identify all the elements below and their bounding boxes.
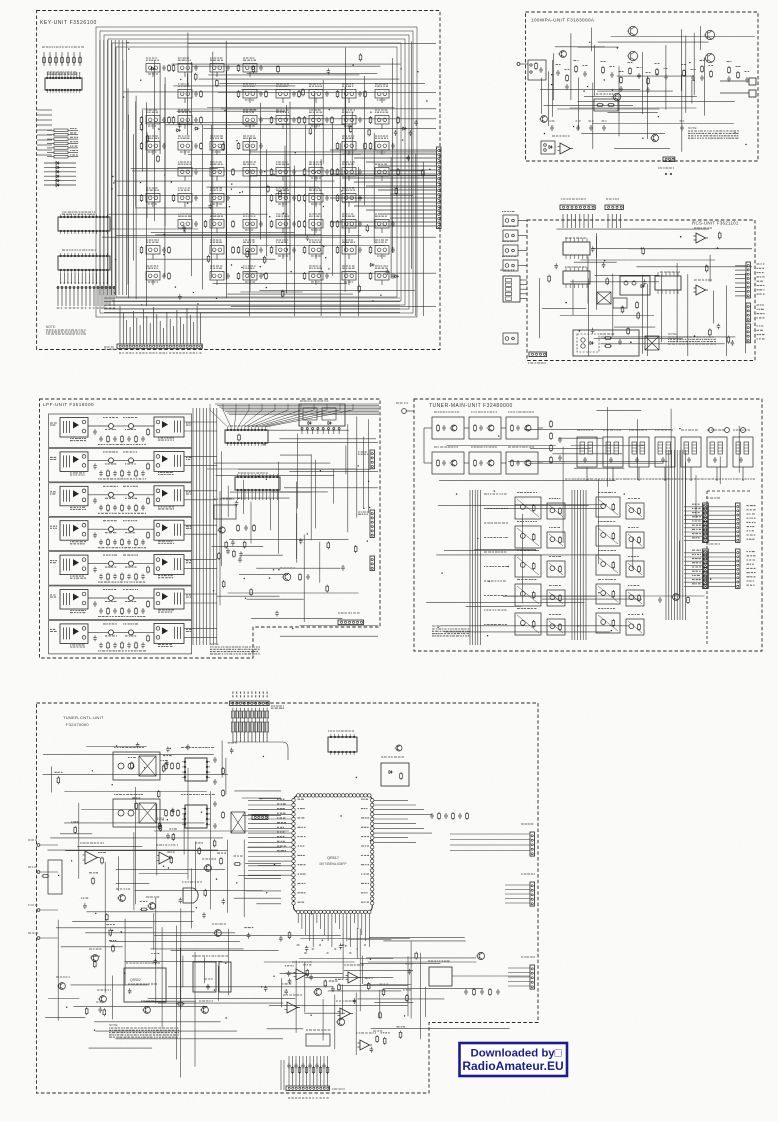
label	[434, 411, 459, 413]
label	[276, 162, 289, 164]
wire	[214, 462, 331, 464]
wire	[720, 92, 749, 94]
label	[682, 64, 686, 66]
wire	[153, 307, 155, 344]
label	[655, 429, 673, 431]
wire	[708, 581, 735, 583]
wire fan	[262, 404, 340, 427]
capacitor	[93, 635, 97, 641]
junction	[653, 139, 654, 140]
label	[747, 551, 755, 553]
wire	[240, 493, 242, 500]
label	[484, 624, 507, 626]
pad	[328, 428, 330, 430]
label	[375, 266, 388, 268]
resistor	[195, 73, 197, 75]
label	[196, 352, 197, 354]
transistor	[451, 460, 457, 466]
wire	[278, 462, 280, 554]
wire	[636, 266, 752, 268]
wire	[356, 417, 358, 518]
label	[757, 289, 765, 291]
wire	[501, 427, 506, 429]
wire	[142, 309, 144, 344]
label	[606, 198, 619, 200]
wire	[373, 133, 375, 244]
wire	[247, 598, 304, 600]
label	[158, 610, 174, 612]
wire	[684, 552, 703, 554]
wire	[219, 406, 379, 408]
pin	[578, 267, 580, 271]
label	[186, 561, 192, 563]
label	[342, 188, 355, 190]
capacitor	[554, 263, 558, 269]
wire	[147, 258, 276, 260]
wire	[68, 156, 78, 158]
label	[70, 576, 86, 578]
resistor	[135, 573, 137, 575]
module KA3	[515, 555, 541, 577]
wire	[216, 176, 218, 181]
label	[97, 307, 99, 309]
pin	[573, 284, 575, 288]
resistor	[141, 142, 143, 144]
label	[186, 526, 192, 528]
key cell Q623	[243, 116, 257, 125]
label	[243, 110, 256, 112]
label	[114, 794, 143, 796]
key cell Q601	[146, 64, 160, 73]
wire	[344, 87, 346, 292]
wire	[188, 42, 436, 44]
resistor	[200, 116, 202, 118]
label	[706, 497, 720, 499]
wire bus	[582, 490, 584, 640]
key cell Q627	[243, 246, 257, 255]
resistor RN5	[247, 711, 250, 718]
junction	[107, 282, 108, 283]
junction	[67, 282, 68, 283]
wire	[708, 518, 735, 520]
capacitor	[127, 608, 131, 614]
pin	[582, 238, 584, 242]
label	[757, 280, 763, 282]
label	[747, 513, 755, 515]
wire	[47, 156, 54, 158]
label	[125, 601, 136, 603]
label	[311, 229, 321, 231]
resistor RN7	[254, 711, 257, 718]
capacitor	[516, 460, 520, 466]
junction	[429, 169, 430, 170]
wire	[381, 98, 383, 103]
resistor	[331, 116, 333, 118]
wire	[374, 837, 408, 839]
wire	[301, 430, 303, 435]
wire	[70, 273, 72, 283]
module KB3	[547, 561, 565, 577]
label	[193, 352, 195, 354]
wire	[216, 254, 218, 259]
wire	[221, 194, 323, 196]
label	[163, 352, 165, 354]
wire	[314, 460, 316, 529]
key cell Q640	[309, 246, 323, 255]
wire	[249, 138, 251, 316]
junction	[140, 80, 141, 81]
capacitor	[292, 221, 296, 227]
label	[757, 276, 765, 278]
resistor	[604, 337, 606, 339]
resistor	[205, 220, 207, 222]
label	[628, 527, 638, 529]
junction	[358, 465, 359, 466]
pad	[73, 287, 75, 289]
diode	[176, 129, 181, 132]
label	[276, 84, 289, 86]
resistor	[612, 532, 614, 534]
wire	[351, 112, 353, 171]
capacitor	[325, 117, 329, 123]
label	[692, 583, 701, 585]
wire	[308, 914, 310, 941]
label	[692, 507, 701, 509]
junction	[89, 282, 90, 283]
junction	[239, 192, 240, 193]
capacitor	[327, 68, 331, 74]
wire	[78, 273, 80, 283]
wire	[154, 60, 156, 221]
wire	[524, 429, 671, 431]
junction	[78, 282, 79, 283]
relay K31	[60, 486, 88, 506]
wire	[315, 254, 317, 259]
junction	[64, 282, 65, 283]
resistor	[728, 66, 730, 68]
capacitor	[194, 221, 198, 227]
junction	[263, 274, 264, 275]
junction	[589, 42, 590, 43]
wire	[330, 197, 436, 199]
wire	[735, 295, 746, 297]
wire	[566, 214, 568, 228]
label	[105, 463, 116, 465]
wire fan	[248, 404, 288, 427]
connector CN3	[663, 157, 675, 162]
label	[125, 463, 136, 465]
transistor	[488, 460, 494, 466]
label	[277, 808, 285, 810]
key cell Q616	[210, 168, 224, 177]
resistor	[350, 125, 352, 127]
capacitor	[700, 75, 704, 81]
IC QR517 pins bottom	[297, 910, 300, 913]
wire	[685, 36, 687, 113]
resistor	[559, 565, 561, 567]
label	[298, 882, 306, 884]
wire	[187, 33, 189, 87]
capacitor	[127, 539, 131, 545]
capacitor	[99, 539, 103, 545]
wire bus	[126, 40, 128, 295]
pin	[569, 284, 571, 288]
resistor	[474, 424, 476, 426]
wire	[708, 539, 735, 541]
wire	[248, 870, 292, 872]
capacitor	[162, 247, 166, 253]
wire	[719, 457, 721, 485]
capacitor	[430, 813, 434, 819]
pin	[703, 513, 707, 517]
label	[278, 255, 288, 257]
label	[50, 423, 57, 425]
wire	[114, 631, 129, 633]
resistor	[238, 246, 240, 248]
wire	[587, 214, 589, 228]
label	[747, 530, 754, 532]
wire	[505, 889, 530, 891]
wire bus	[472, 490, 474, 645]
wire	[227, 293, 353, 295]
wire	[306, 430, 308, 435]
resistor	[147, 634, 149, 636]
label	[73, 307, 76, 309]
label	[186, 352, 188, 354]
label	[628, 614, 640, 616]
wire	[73, 72, 75, 75]
wire	[586, 467, 588, 480]
wire	[61, 52, 63, 66]
key cell Q655	[375, 246, 389, 255]
wire	[322, 430, 324, 435]
wire	[708, 531, 735, 533]
label	[757, 272, 764, 274]
resistor	[360, 53, 362, 55]
junction	[441, 572, 442, 573]
relay K42	[154, 520, 184, 540]
junction	[236, 140, 237, 141]
label	[125, 429, 136, 431]
resistor	[107, 469, 109, 471]
wire	[64, 72, 66, 75]
label	[178, 110, 191, 112]
wire	[186, 74, 188, 136]
wire	[152, 150, 154, 155]
junction	[224, 110, 225, 111]
label	[101, 307, 103, 309]
junction	[694, 80, 695, 81]
module tuner T6	[707, 437, 727, 467]
wire	[85, 286, 87, 306]
junction	[183, 230, 184, 231]
label	[342, 84, 354, 86]
junction	[164, 234, 165, 235]
wire	[390, 169, 436, 171]
input jack	[517, 63, 520, 66]
junction	[231, 189, 232, 190]
wire bus	[682, 450, 684, 620]
resistor	[683, 69, 685, 71]
junction	[630, 341, 632, 343]
capacitor	[259, 143, 263, 149]
label	[105, 429, 116, 431]
pin	[565, 267, 567, 271]
wire	[55, 52, 57, 66]
connector CN302	[370, 510, 375, 537]
diode	[640, 284, 645, 287]
label	[747, 567, 756, 569]
label	[148, 151, 156, 153]
connector CN502	[252, 815, 268, 820]
label	[502, 241, 516, 243]
label	[757, 317, 765, 319]
junction	[128, 48, 129, 49]
wire	[684, 514, 703, 516]
label	[349, 952, 351, 954]
wire	[664, 467, 666, 480]
label	[98, 478, 146, 480]
wire bus	[571, 490, 573, 640]
label	[277, 826, 284, 828]
capacitor	[93, 601, 97, 607]
label	[98, 650, 146, 652]
junction	[508, 566, 509, 567]
wire	[247, 73, 378, 75]
wire	[74, 273, 76, 283]
junction	[140, 182, 141, 183]
wire	[601, 343, 725, 345]
wire bus	[99, 40, 101, 295]
label	[232, 734, 234, 741]
resistor	[238, 64, 240, 66]
label	[576, 120, 581, 122]
resistor R62	[54, 138, 68, 141]
label	[210, 240, 222, 242]
resistor	[309, 127, 311, 129]
wire	[518, 235, 527, 237]
wire	[248, 865, 292, 867]
label	[158, 507, 174, 509]
wire	[63, 273, 65, 283]
label	[600, 333, 614, 335]
wire bus	[104, 304, 400, 306]
wire bus	[110, 40, 112, 295]
wire	[424, 462, 432, 464]
wire	[735, 282, 746, 284]
label	[146, 188, 159, 190]
wire fan	[259, 404, 328, 427]
junction	[489, 581, 490, 582]
jack J5	[503, 333, 518, 344]
connector	[530, 832, 535, 856]
wire	[250, 175, 436, 177]
wire	[37, 154, 52, 156]
resistor	[238, 142, 240, 144]
label	[377, 151, 385, 153]
resistor	[237, 524, 239, 526]
junction	[690, 479, 691, 480]
resistor	[298, 90, 300, 92]
wire	[390, 193, 436, 195]
wire	[229, 538, 348, 540]
wire	[611, 214, 613, 228]
wire	[505, 884, 530, 886]
pin	[565, 284, 567, 288]
capacitor	[259, 91, 263, 97]
capacitor	[358, 117, 362, 123]
label	[550, 120, 555, 122]
IC QR520	[328, 737, 357, 752]
wire	[184, 568, 217, 570]
label	[77, 307, 79, 309]
label	[736, 66, 741, 68]
svg-text:QR502: QR502	[130, 978, 141, 982]
wire	[381, 124, 383, 129]
pin	[506, 297, 512, 300]
wire	[146, 316, 148, 344]
wire	[116, 235, 361, 237]
wire	[249, 186, 436, 188]
capacitor	[141, 470, 145, 476]
connector CN202	[605, 205, 623, 210]
wire	[88, 425, 109, 427]
resistor	[216, 79, 218, 81]
label	[123, 485, 138, 487]
wire	[73, 286, 75, 306]
label	[692, 533, 701, 535]
resistor	[331, 168, 333, 170]
label	[146, 266, 158, 268]
resistor	[121, 573, 123, 575]
capacitor	[619, 86, 623, 92]
wire	[597, 90, 673, 92]
junction	[307, 533, 308, 534]
label	[375, 214, 387, 216]
label	[610, 66, 615, 68]
connector CN205	[746, 324, 751, 343]
wire	[505, 898, 530, 900]
wire	[186, 308, 188, 344]
wire	[542, 308, 586, 310]
label	[344, 151, 354, 153]
label	[236, 734, 238, 741]
label	[629, 429, 647, 431]
resistor	[337, 90, 339, 92]
label	[747, 563, 754, 565]
diode	[307, 421, 312, 424]
wire	[110, 228, 198, 230]
label	[212, 203, 222, 205]
label	[517, 550, 537, 552]
label	[549, 614, 561, 616]
resistor	[638, 594, 640, 596]
label	[434, 446, 458, 448]
resistor	[612, 561, 614, 563]
resistor	[141, 194, 143, 196]
pin	[703, 563, 707, 567]
junction	[60, 282, 61, 283]
capacitor	[259, 273, 263, 279]
label	[556, 64, 561, 66]
wire	[119, 306, 121, 344]
wire	[348, 254, 350, 259]
resistor	[364, 142, 366, 144]
wire	[708, 514, 735, 516]
label	[688, 131, 739, 138]
wire	[134, 563, 155, 565]
key cell Q607	[178, 64, 192, 73]
